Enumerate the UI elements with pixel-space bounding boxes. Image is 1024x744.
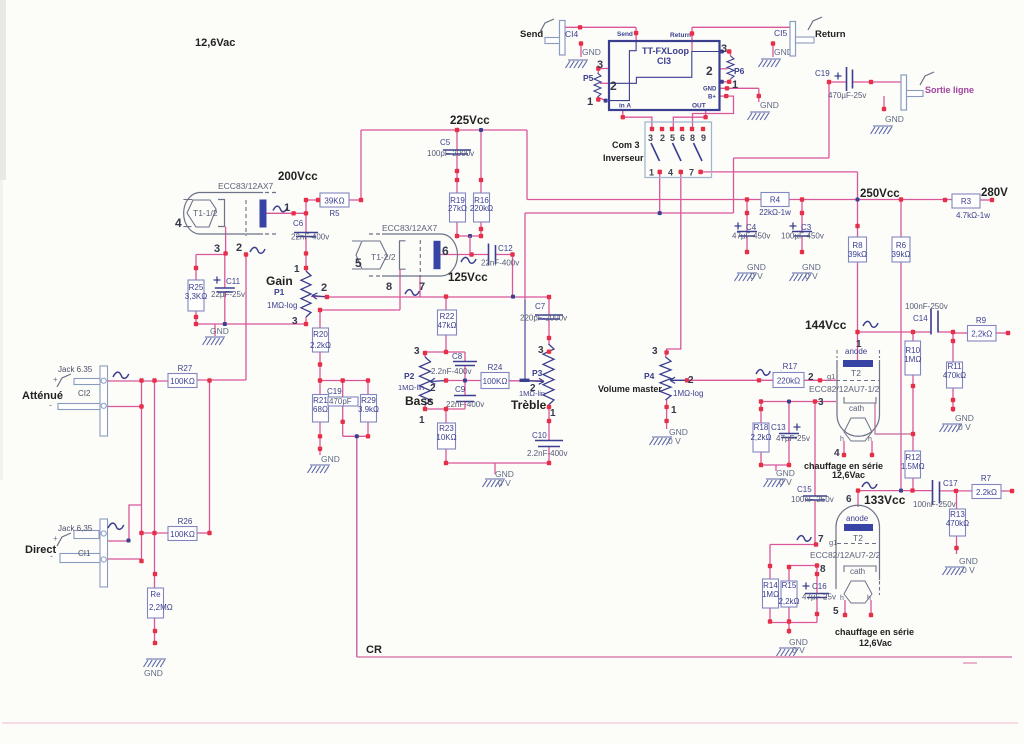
svg-text:R8: R8 <box>852 241 863 250</box>
svg-text:2: 2 <box>321 282 327 294</box>
svg-text:ECC82/12AU7-2/2: ECC82/12AU7-2/2 <box>810 550 881 560</box>
svg-text:2: 2 <box>236 242 242 254</box>
svg-text:CI3: CI3 <box>657 56 671 66</box>
svg-text:GND: GND <box>144 668 163 678</box>
svg-text:R13: R13 <box>950 510 965 519</box>
svg-text:22nF-400v: 22nF-400v <box>481 259 519 268</box>
svg-text:Sortie ligne: Sortie ligne <box>925 85 974 95</box>
svg-text:0 V: 0 V <box>805 271 818 281</box>
svg-text:125Vcc: 125Vcc <box>448 272 488 284</box>
svg-text:R10: R10 <box>905 346 920 355</box>
svg-text:3: 3 <box>721 43 727 55</box>
svg-text:2: 2 <box>660 133 665 143</box>
svg-text:0 V: 0 V <box>962 565 975 575</box>
svg-text:2,2kΩ: 2,2kΩ <box>778 597 799 606</box>
svg-text:4: 4 <box>668 168 673 178</box>
svg-text:7: 7 <box>689 168 694 178</box>
svg-text:1: 1 <box>294 264 300 275</box>
svg-text:200Vcc: 200Vcc <box>278 171 318 183</box>
svg-text:chauffage en série: chauffage en série <box>835 627 914 637</box>
svg-text:3: 3 <box>648 133 653 143</box>
svg-text:C5: C5 <box>440 138 451 147</box>
svg-text:R7: R7 <box>981 474 992 483</box>
svg-text:39kΩ: 39kΩ <box>848 250 867 259</box>
svg-text:470pF: 470pF <box>329 397 352 406</box>
svg-text:C16: C16 <box>812 582 827 591</box>
svg-text:47µF-25v: 47µF-25v <box>776 434 810 443</box>
svg-text:4.7kΩ-1w: 4.7kΩ-1w <box>956 211 990 220</box>
svg-text:g1: g1 <box>827 372 835 381</box>
svg-text:4: 4 <box>834 448 840 459</box>
svg-text:Inverseur: Inverseur <box>603 153 644 163</box>
svg-text:cath: cath <box>849 404 864 413</box>
svg-text:1MΩ: 1MΩ <box>762 590 779 599</box>
svg-text:100nF-250v: 100nF-250v <box>913 500 956 509</box>
svg-text:h: h <box>840 595 844 602</box>
svg-text:1: 1 <box>587 96 593 108</box>
svg-text:1MΩ-lin: 1MΩ-lin <box>398 383 424 392</box>
svg-text:GND: GND <box>703 87 717 93</box>
svg-text:B+: B+ <box>708 95 716 101</box>
svg-text:39KΩ: 39KΩ <box>324 197 344 206</box>
svg-text:CI2: CI2 <box>78 389 91 398</box>
svg-text:1.5MΩ: 1.5MΩ <box>901 462 925 471</box>
svg-text:10KΩ: 10KΩ <box>436 433 456 442</box>
svg-text:C11: C11 <box>226 277 241 286</box>
svg-text:+: + <box>53 375 58 384</box>
svg-text:2,2kΩ: 2,2kΩ <box>750 433 771 442</box>
svg-text:h: h <box>868 436 872 443</box>
svg-text:3: 3 <box>652 346 658 357</box>
svg-text:ECC82/12AU7-1/2: ECC82/12AU7-1/2 <box>809 384 880 394</box>
svg-text:100KΩ: 100KΩ <box>170 530 195 539</box>
svg-text:1: 1 <box>732 79 738 91</box>
svg-text:1: 1 <box>284 202 290 214</box>
svg-text:1: 1 <box>550 408 556 419</box>
svg-text:2: 2 <box>610 79 617 93</box>
svg-text:8: 8 <box>820 564 826 575</box>
svg-text:GND: GND <box>321 454 340 464</box>
svg-text:R9: R9 <box>976 316 987 325</box>
svg-text:R22: R22 <box>440 312 455 321</box>
svg-text:6: 6 <box>680 133 685 143</box>
svg-text:GND: GND <box>582 47 601 57</box>
svg-text:1: 1 <box>419 415 425 426</box>
svg-text:225Vcc: 225Vcc <box>450 115 490 127</box>
svg-text:R6: R6 <box>896 241 907 250</box>
svg-text:0 V: 0 V <box>958 422 971 432</box>
svg-text:ECC83/12AX7: ECC83/12AX7 <box>382 223 438 233</box>
svg-text:2: 2 <box>530 383 536 394</box>
svg-text:3: 3 <box>414 346 420 357</box>
svg-text:R29: R29 <box>361 396 376 405</box>
svg-text:1MΩ-log: 1MΩ-log <box>267 301 297 310</box>
svg-text:R25: R25 <box>189 283 204 292</box>
svg-text:h: h <box>840 436 844 443</box>
svg-text:h: h <box>867 595 871 602</box>
svg-text:2.2kΩ: 2.2kΩ <box>310 341 331 350</box>
svg-text:6: 6 <box>846 494 852 505</box>
svg-text:Return: Return <box>815 29 846 40</box>
svg-text:C7: C7 <box>535 302 546 311</box>
svg-text:T2: T2 <box>853 533 863 543</box>
svg-text:4: 4 <box>175 216 182 230</box>
svg-text:3: 3 <box>538 345 544 356</box>
svg-text:GND: GND <box>885 114 904 124</box>
svg-text:C13: C13 <box>771 423 786 432</box>
svg-text:8: 8 <box>386 281 392 293</box>
svg-text:Re: Re <box>150 590 161 599</box>
svg-text:3: 3 <box>597 59 603 71</box>
svg-text:T1-2/2: T1-2/2 <box>371 252 396 262</box>
svg-text:100pF-2000v: 100pF-2000v <box>427 149 474 158</box>
svg-text:TT-FXLoop: TT-FXLoop <box>642 46 689 56</box>
svg-text:144Vcc: 144Vcc <box>805 318 847 332</box>
svg-text:R12: R12 <box>905 453 920 462</box>
svg-text:220pF-2000v: 220pF-2000v <box>520 314 567 323</box>
svg-text:OUT: OUT <box>692 103 706 110</box>
svg-text:CI5: CI5 <box>774 28 788 38</box>
svg-text:3.9kΩ: 3.9kΩ <box>358 405 379 414</box>
svg-text:Gain: Gain <box>266 274 293 288</box>
svg-text:C14: C14 <box>913 314 928 323</box>
svg-text:+: + <box>53 534 58 543</box>
svg-text:P5: P5 <box>583 73 594 83</box>
svg-text:27kΩ: 27kΩ <box>448 204 467 213</box>
svg-text:R15: R15 <box>782 581 797 590</box>
svg-text:Direct: Direct <box>25 544 57 556</box>
svg-text:Send: Send <box>520 29 543 40</box>
svg-text:22nF-400v: 22nF-400v <box>446 400 484 409</box>
svg-text:100nF-250v: 100nF-250v <box>905 302 948 311</box>
svg-text:0 V: 0 V <box>779 477 792 487</box>
svg-text:Return: Return <box>670 32 691 39</box>
svg-text:R26: R26 <box>178 517 193 526</box>
svg-text:R20: R20 <box>313 330 328 339</box>
svg-text:9: 9 <box>701 133 706 143</box>
svg-text:R3: R3 <box>961 197 972 206</box>
svg-text:2: 2 <box>706 64 713 78</box>
svg-text:Jack 6.35: Jack 6.35 <box>58 365 93 374</box>
svg-text:7: 7 <box>818 534 824 545</box>
svg-text:C17: C17 <box>943 479 958 488</box>
svg-text:C6: C6 <box>293 219 304 228</box>
svg-text:R21: R21 <box>313 396 328 405</box>
svg-text:22µF-25v: 22µF-25v <box>211 290 245 299</box>
svg-text:220kΩ: 220kΩ <box>470 204 493 213</box>
svg-text:anode: anode <box>846 514 869 523</box>
svg-text:5: 5 <box>355 256 362 270</box>
svg-text:R14: R14 <box>763 581 778 590</box>
svg-text:250Vcc: 250Vcc <box>860 188 900 200</box>
svg-text:5: 5 <box>670 133 675 143</box>
svg-text:Atténué: Atténué <box>22 390 63 402</box>
svg-text:R27: R27 <box>178 364 193 373</box>
svg-text:GND: GND <box>210 326 229 336</box>
svg-text:C9: C9 <box>455 385 466 394</box>
svg-text:cath: cath <box>850 567 865 576</box>
svg-text:2: 2 <box>688 375 694 386</box>
svg-text:100µF-450v: 100µF-450v <box>781 232 824 241</box>
svg-text:1MΩ: 1MΩ <box>904 355 921 364</box>
svg-text:6: 6 <box>442 244 449 258</box>
svg-text:3,3KΩ: 3,3KΩ <box>185 292 207 301</box>
svg-text:68Ω: 68Ω <box>313 405 328 414</box>
svg-text:P6: P6 <box>734 66 745 76</box>
svg-text:7: 7 <box>419 281 425 293</box>
svg-text:2,2kΩ: 2,2kΩ <box>971 330 992 339</box>
svg-text:in A: in A <box>619 103 631 110</box>
svg-text:22kΩ-1w: 22kΩ-1w <box>759 208 791 217</box>
svg-text:C12: C12 <box>498 244 513 253</box>
svg-text:470µF-25v: 470µF-25v <box>828 91 866 100</box>
svg-text:C19: C19 <box>327 387 342 396</box>
svg-text:12,6Vac: 12,6Vac <box>832 470 865 480</box>
svg-text:R5: R5 <box>329 209 340 218</box>
svg-text:39kΩ: 39kΩ <box>892 250 911 259</box>
svg-text:100KΩ: 100KΩ <box>483 377 508 386</box>
svg-text:C10: C10 <box>532 431 547 440</box>
svg-text:Send: Send <box>617 31 633 38</box>
svg-text:C8: C8 <box>452 352 463 361</box>
svg-text:R11: R11 <box>947 362 962 371</box>
svg-text:R4: R4 <box>770 196 781 205</box>
svg-text:1: 1 <box>856 339 862 350</box>
svg-text:220kΩ: 220kΩ <box>777 377 800 386</box>
svg-text:P3: P3 <box>532 368 543 378</box>
svg-text:1: 1 <box>649 168 654 178</box>
svg-text:ECC83/12AX7: ECC83/12AX7 <box>218 181 274 191</box>
svg-text:8: 8 <box>690 133 695 143</box>
svg-text:470kΩ: 470kΩ <box>943 371 966 380</box>
svg-text:P4: P4 <box>644 371 655 381</box>
svg-text:Trèble: Trèble <box>511 398 547 412</box>
svg-text:R17: R17 <box>783 362 798 371</box>
svg-text:0 V: 0 V <box>750 271 763 281</box>
svg-text:P1: P1 <box>274 287 285 297</box>
svg-text:47kΩ: 47kΩ <box>438 321 457 330</box>
svg-text:g1: g1 <box>829 538 837 547</box>
svg-text:2.2nF-400v: 2.2nF-400v <box>527 449 567 458</box>
svg-text:Com 3: Com 3 <box>612 140 640 150</box>
svg-text:3: 3 <box>818 397 824 408</box>
svg-text:Jack 6,35: Jack 6,35 <box>58 524 93 533</box>
svg-text:0 V: 0 V <box>498 478 511 488</box>
svg-text:280V: 280V <box>981 187 1008 199</box>
svg-text:2: 2 <box>430 383 436 394</box>
svg-text:133Vcc: 133Vcc <box>864 493 906 507</box>
svg-text:1: 1 <box>671 405 677 416</box>
svg-text:C19: C19 <box>815 69 830 78</box>
svg-text:P2: P2 <box>404 371 415 381</box>
svg-text:3: 3 <box>214 243 220 255</box>
svg-text:100nF-250v: 100nF-250v <box>791 495 834 504</box>
svg-text:C15: C15 <box>797 485 812 494</box>
svg-text:CI4: CI4 <box>565 29 579 39</box>
svg-text:5: 5 <box>833 606 839 617</box>
svg-text:3: 3 <box>292 316 298 327</box>
svg-text:470kΩ: 470kΩ <box>946 519 969 528</box>
svg-text:100KΩ: 100KΩ <box>170 377 195 386</box>
svg-text:47µF-450v: 47µF-450v <box>732 232 770 241</box>
svg-text:T1-1/2: T1-1/2 <box>193 208 218 218</box>
svg-text:2.2nF-400v: 2.2nF-400v <box>431 367 471 376</box>
svg-text:Volume master: Volume master <box>598 384 662 394</box>
svg-text:2,2MΩ: 2,2MΩ <box>149 603 173 612</box>
svg-text:R18: R18 <box>754 423 769 432</box>
svg-text:47µF-25v: 47µF-25v <box>802 593 836 602</box>
svg-text:2: 2 <box>808 372 814 383</box>
svg-text:CI1: CI1 <box>78 549 91 558</box>
svg-text:0 V: 0 V <box>792 645 805 655</box>
svg-text:0 V: 0 V <box>668 436 681 446</box>
svg-text:12,6Vac: 12,6Vac <box>195 37 235 49</box>
svg-text:22nF-400v: 22nF-400v <box>291 233 329 242</box>
svg-text:1MΩ-log: 1MΩ-log <box>673 389 703 398</box>
svg-text:2.2kΩ: 2.2kΩ <box>976 488 997 497</box>
svg-text:T2: T2 <box>851 368 861 378</box>
svg-text:R23: R23 <box>439 424 454 433</box>
svg-text:12,6Vac: 12,6Vac <box>859 638 892 648</box>
svg-text:R24: R24 <box>488 363 503 372</box>
svg-text:CR: CR <box>366 644 382 656</box>
svg-text:Bass: Bass <box>405 394 434 408</box>
svg-text:GND: GND <box>760 100 779 110</box>
